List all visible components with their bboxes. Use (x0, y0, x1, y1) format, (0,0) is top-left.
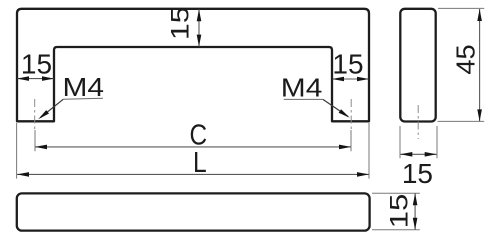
svg-text:L: L (193, 146, 207, 178)
extension line side 15 left (399, 126, 401, 158)
svg-text:15: 15 (166, 7, 194, 40)
side view outline (400, 9, 435, 122)
centerline right hole (350, 99, 352, 131)
extension line 45 top (438, 7, 484, 9)
svg-text:45: 45 (451, 44, 480, 74)
svg-text:15: 15 (385, 194, 413, 229)
M4 right leader diagonal (323, 99, 348, 116)
svg-text:M4: M4 (281, 73, 323, 102)
svg-text:M4: M4 (63, 73, 105, 102)
dimension side 15 line (400, 153, 436, 155)
dimension 15 right (leg width) line (332, 78, 368, 80)
extension line C left (34, 130, 36, 151)
centerline side view (417, 105, 419, 139)
extension line side 15 right (436, 126, 438, 158)
dimension bottom 15 line (414, 193, 416, 229)
extension line bottom 15 top (372, 192, 420, 194)
dimension C line (35, 146, 351, 148)
dimension 45 line (479, 9, 481, 121)
bottom view outline (17, 193, 370, 230)
svg-text:15: 15 (402, 158, 433, 189)
M4 left leader underline (63, 98, 103, 99)
extension line bottom 15 bottom (372, 229, 420, 231)
extension line C right (350, 130, 352, 151)
M4 right leader underline (284, 98, 323, 100)
dimension 15 top (bar height) line (198, 9, 200, 46)
centerline left hole (34, 99, 36, 131)
dimension 15 left (leg width) line (17, 78, 53, 80)
extension line 45 bottom (438, 120, 485, 122)
svg-text:15: 15 (332, 49, 363, 80)
dimension L line (17, 173, 369, 175)
extension line L left (16, 123, 18, 179)
M4 left leader diagonal (41, 99, 64, 117)
svg-text:15: 15 (21, 49, 52, 80)
front view handle outline (17, 9, 369, 122)
extension line L right (368, 123, 370, 179)
